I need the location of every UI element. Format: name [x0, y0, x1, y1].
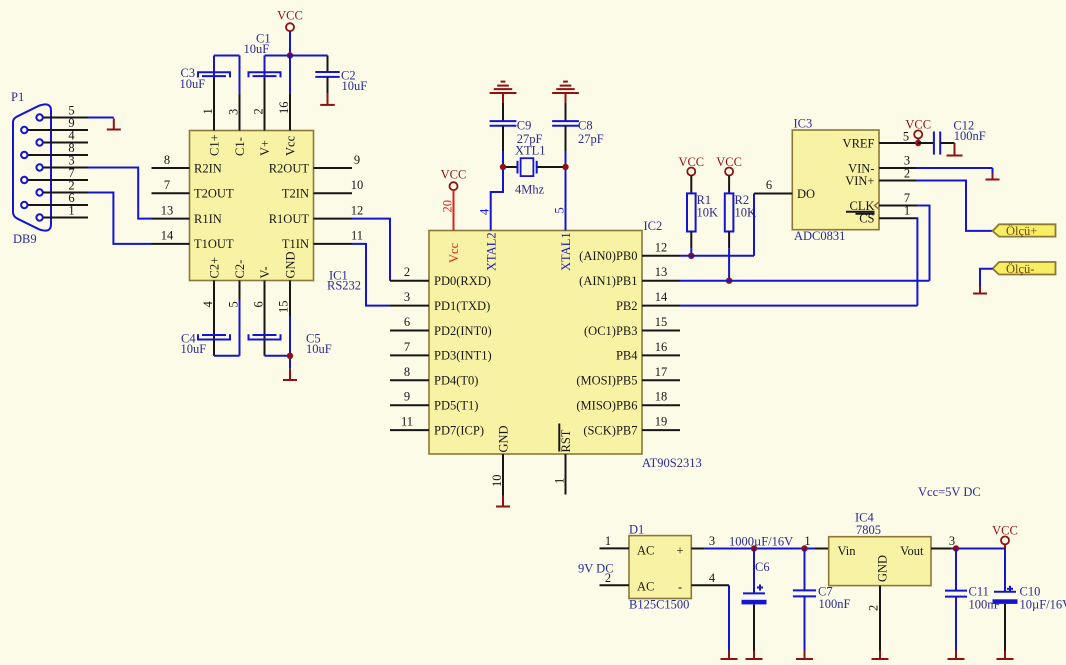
connector pin 1 — [36, 204, 88, 221]
svg-text:VIN+: VIN+ — [845, 174, 874, 188]
node C7 junction — [801, 545, 807, 551]
node C11 junction — [953, 545, 959, 551]
wire PB0 net — [680, 194, 754, 256]
svg-text:5: 5 — [903, 130, 909, 144]
pin 12 (AIN0)PB0 — [579, 240, 680, 263]
wire C8 to XTAL1 node — [565, 151, 567, 167]
power VCC symbol R1 — [678, 155, 704, 176]
earth ground above C9 — [490, 82, 517, 103]
connector pin 6 — [21, 191, 88, 208]
svg-text:PD5(T1): PD5(T1) — [434, 399, 478, 413]
pin 3 PD1(TXD) — [390, 290, 490, 313]
pin name XTAL2 — [484, 232, 498, 271]
svg-text:1: 1 — [605, 534, 611, 548]
svg-text:8: 8 — [164, 153, 170, 167]
svg-text:1: 1 — [201, 108, 215, 114]
svg-text:100nF: 100nF — [954, 129, 986, 143]
svg-text:6: 6 — [404, 315, 410, 329]
wire C7 bottom — [804, 596, 806, 650]
capacitor C4 — [198, 334, 230, 339]
svg-text:(MOSI)PB5: (MOSI)PB5 — [576, 374, 637, 388]
svg-text:1: 1 — [804, 534, 810, 548]
svg-text:4Mhz: 4Mhz — [515, 183, 545, 197]
svg-text:C11: C11 — [969, 585, 989, 599]
svg-text:13: 13 — [161, 203, 174, 217]
svg-text:13: 13 — [655, 265, 668, 279]
pin 3 IC4 Vout — [931, 534, 955, 549]
label 1000uF/16V — [729, 535, 793, 549]
svg-text:VCC: VCC — [441, 168, 467, 182]
capacitor C9 — [490, 103, 517, 151]
svg-text:IC2: IC2 — [644, 219, 663, 233]
label C7 value — [818, 585, 851, 612]
pin 2 VIN+ — [845, 167, 916, 188]
svg-text:19: 19 — [655, 415, 668, 429]
svg-text:D1: D1 — [629, 523, 644, 537]
pin 7 PD3(INT1) — [390, 340, 492, 363]
pin 17 (MOSI)PB5 — [576, 365, 680, 388]
pin 15 (OC1)PB3 — [584, 315, 680, 338]
node C5 GND junction — [287, 353, 293, 359]
wire C6 bottom — [753, 605, 755, 651]
svg-text:6: 6 — [766, 178, 772, 192]
wire CS net — [916, 218, 917, 305]
svg-text:11: 11 — [351, 229, 363, 243]
svg-text:RST: RST — [559, 429, 573, 452]
svg-text:VCC: VCC — [277, 9, 303, 23]
svg-text:C2+: C2+ — [208, 257, 222, 279]
connector pin 3 — [36, 154, 88, 171]
svg-text:3: 3 — [227, 109, 241, 115]
pin name XTAL1 — [559, 232, 573, 271]
pin name V+ — [258, 140, 272, 156]
svg-text:10K: 10K — [735, 206, 757, 220]
pin name GND IC2 — [497, 425, 511, 452]
label C12 value — [953, 119, 985, 144]
svg-text:DB9: DB9 — [13, 232, 37, 246]
ground under IC2 GND — [496, 496, 510, 507]
pin 11 PD7(ICP) — [390, 415, 484, 438]
ic IC1 RS232 body — [190, 131, 314, 281]
wire DB9 pin3 to R1IN — [88, 168, 152, 219]
wire C3 top to pin3 — [214, 56, 240, 94]
ground under C6 — [746, 651, 763, 660]
crystal XTL1 — [506, 158, 563, 176]
ground under C2 — [320, 93, 335, 105]
node VCC junction — [287, 52, 293, 58]
pin 1 D1 — [600, 534, 630, 548]
wire VIN- to ground — [916, 168, 993, 174]
ic IC4 7805 body — [829, 537, 931, 586]
label DB9 — [13, 232, 37, 246]
label C8 value — [578, 119, 604, 147]
svg-text:3: 3 — [904, 154, 910, 168]
svg-text:Vcc: Vcc — [447, 242, 461, 263]
svg-text:RS232: RS232 — [327, 279, 361, 293]
pin 3 VIN- — [848, 154, 916, 176]
power VCC symbol R2 — [716, 155, 742, 176]
svg-text:PD4(T0): PD4(T0) — [434, 374, 478, 388]
svg-text:2: 2 — [252, 108, 266, 114]
wire rail to IC4 — [804, 534, 829, 549]
svg-text:Ölçü-: Ölçü- — [1006, 262, 1034, 276]
label AT90S2313 — [642, 456, 702, 470]
pin 2 D1 — [600, 571, 630, 585]
label IC1 — [327, 269, 361, 293]
label C9 value — [517, 119, 543, 147]
node XTAL1 junction — [562, 164, 568, 170]
node VREF VCC junction — [915, 140, 921, 146]
wire C2 bottom — [327, 77, 329, 93]
label IC4 — [855, 511, 875, 525]
svg-text:15: 15 — [277, 301, 291, 314]
svg-text:10uF: 10uF — [342, 79, 368, 93]
label 9V DC — [578, 562, 614, 576]
node XTAL2 junction — [500, 164, 506, 170]
connector P1 DB9 outline — [13, 104, 51, 230]
ground at VIN- — [986, 174, 1000, 180]
svg-text:PD0(RXD): PD0(RXD) — [434, 274, 491, 288]
pin 7 CLK — [846, 191, 917, 213]
wire Olcu- to ground — [980, 269, 993, 287]
ground at C12 — [947, 143, 963, 156]
svg-text:10K: 10K — [697, 206, 719, 220]
svg-text:VREF: VREF — [843, 137, 875, 151]
capacitor C2 — [315, 72, 339, 77]
node R1 PB0 junction — [688, 253, 694, 259]
pin 16 stub Vcc — [277, 93, 291, 130]
svg-text:6: 6 — [252, 301, 266, 307]
svg-text:12: 12 — [655, 240, 668, 254]
power VCC symbol at pin20 — [441, 168, 467, 191]
ic IC2 AT90S2313 body — [429, 231, 642, 455]
svg-text:PD7(ICP): PD7(ICP) — [434, 423, 484, 437]
svg-text:2: 2 — [867, 605, 881, 611]
svg-text:DO: DO — [797, 187, 815, 201]
svg-text:20: 20 — [441, 200, 455, 213]
svg-text:P1: P1 — [11, 90, 24, 104]
svg-text:10: 10 — [490, 475, 504, 488]
svg-text:C2-: C2- — [233, 260, 247, 279]
svg-text:1: 1 — [904, 204, 910, 218]
svg-text:C1+: C1+ — [208, 134, 222, 156]
svg-text:1: 1 — [553, 478, 567, 484]
svg-text:(AIN1)PB1: (AIN1)PB1 — [579, 274, 637, 288]
svg-text:PB4: PB4 — [616, 349, 638, 363]
label Vcc=5V DC — [918, 485, 981, 499]
label IC3 — [794, 117, 813, 131]
svg-text:C1-: C1- — [233, 137, 247, 156]
wire DB9 pin5 to ground — [88, 117, 114, 119]
wire C7 top — [804, 549, 806, 591]
pin 19 (SCK)PB7 — [583, 415, 680, 438]
svg-text:18: 18 — [655, 390, 668, 404]
wire R1 to PB0 — [690, 248, 692, 256]
svg-text:10uF: 10uF — [180, 77, 206, 91]
label C10 value — [1020, 585, 1066, 612]
wire Vout rail — [952, 548, 1005, 550]
capacitor C11 — [945, 591, 967, 597]
power VCC symbol top — [277, 9, 303, 32]
label C6 — [755, 560, 770, 574]
pin 18 (MISO)PB6 — [576, 390, 680, 413]
pin 16 PB4 — [616, 340, 680, 363]
label C11 value — [969, 585, 1001, 612]
svg-text:9: 9 — [404, 390, 410, 404]
wire VCC to pin20 — [441, 190, 455, 230]
svg-text:VCC: VCC — [905, 118, 931, 132]
svg-text:R1OUT: R1OUT — [269, 212, 310, 226]
svg-text:T1OUT: T1OUT — [194, 237, 234, 251]
svg-text:C9: C9 — [517, 119, 532, 133]
svg-text:(OC1)PB3: (OC1)PB3 — [584, 324, 637, 338]
svg-text:5: 5 — [553, 207, 567, 213]
svg-text:1: 1 — [68, 204, 74, 218]
svg-text:17: 17 — [655, 365, 668, 379]
svg-text:10: 10 — [351, 178, 364, 192]
svg-text:4: 4 — [478, 208, 492, 215]
wire R2 to PB1 — [728, 248, 730, 280]
pin name C1+ — [208, 134, 222, 156]
svg-text:C6: C6 — [755, 560, 770, 574]
ic IC3 ADC0831 body — [792, 130, 879, 230]
pin 10 GND stub — [490, 454, 504, 496]
label R2 value — [735, 193, 757, 220]
capacitor C5 — [249, 334, 281, 339]
svg-text:R2IN: R2IN — [194, 161, 222, 175]
ground under IC4 — [872, 651, 889, 660]
label 4Mhz — [515, 183, 545, 197]
svg-text:10uF: 10uF — [306, 342, 332, 356]
pin 15 stub GND — [277, 251, 298, 316]
connector pin 5 — [36, 104, 88, 121]
svg-text:2: 2 — [904, 167, 910, 181]
pin 12 R1OUT — [269, 203, 364, 226]
svg-text:5: 5 — [227, 301, 241, 307]
svg-text:PD2(INT0): PD2(INT0) — [434, 324, 492, 338]
label Olcu+ — [1006, 224, 1037, 238]
svg-text:T2OUT: T2OUT — [194, 187, 234, 201]
svg-text:GND: GND — [876, 555, 890, 582]
svg-text:ADC0831: ADC0831 — [794, 229, 845, 243]
label C3 value — [180, 66, 206, 91]
capacitor C8 — [552, 103, 579, 151]
svg-text:+: + — [677, 544, 684, 558]
svg-text:T1IN: T1IN — [282, 237, 309, 251]
pin names D1 — [637, 544, 684, 595]
svg-text:C10: C10 — [1020, 585, 1041, 599]
svg-text:14: 14 — [655, 290, 668, 304]
wire C4 bottom to pin5 — [214, 300, 240, 356]
svg-text:8: 8 — [404, 365, 410, 379]
wire pin4 down — [728, 585, 730, 650]
svg-text:PD1(TXD): PD1(TXD) — [434, 299, 490, 313]
wire T1IN to PD1 — [352, 244, 390, 306]
label C5 value — [306, 332, 332, 357]
svg-text:(SCK)PB7: (SCK)PB7 — [583, 423, 637, 437]
pin 4 D1 — [691, 571, 729, 585]
connector pin 8 — [21, 141, 88, 158]
svg-text:XTAL1: XTAL1 — [559, 232, 573, 271]
earth ground above C8 — [552, 82, 579, 103]
capacitor C6 — [742, 585, 767, 605]
svg-text:15: 15 — [655, 315, 668, 329]
label R1 value — [697, 193, 719, 220]
port Olcu- flag — [993, 262, 1056, 275]
ground under C5 — [283, 368, 297, 380]
svg-text:PB2: PB2 — [616, 299, 638, 313]
pin 1 stub C1+ — [201, 78, 215, 131]
pin 14 PB2 — [616, 290, 680, 313]
connector pin 9 — [21, 116, 88, 133]
pin 1 RST stub — [553, 454, 567, 495]
wire DB9 pin2 to T1OUT — [88, 193, 152, 244]
capacitor C7 — [793, 590, 816, 596]
power VCC symbol output — [992, 524, 1018, 549]
pin 3 D1 — [691, 534, 715, 549]
svg-text:Vout: Vout — [900, 544, 924, 558]
svg-text:9V DC: 9V DC — [578, 562, 614, 576]
pin 14 T1OUT — [152, 229, 234, 252]
ground under C10 — [997, 651, 1014, 660]
ground under D1 pin4 — [721, 651, 738, 660]
pin 1 CS — [856, 204, 917, 226]
label P1 — [11, 90, 24, 104]
pin 5 stub C2- — [227, 260, 248, 308]
connector pin 2 — [36, 179, 88, 196]
pin 2 IC4 GND — [867, 586, 881, 651]
node C6 junction — [751, 545, 757, 551]
pin 5 VREF — [843, 130, 919, 151]
pin names IC4 — [838, 544, 925, 582]
capacitor C1 — [249, 72, 281, 77]
power VCC symbol at VREF — [905, 118, 931, 144]
pin 6 stub V- — [252, 266, 273, 355]
svg-text:R2OUT: R2OUT — [269, 161, 310, 175]
svg-text:XTAL2: XTAL2 — [484, 232, 498, 271]
pin name C1- — [233, 137, 247, 156]
svg-text:11: 11 — [401, 415, 413, 429]
pin 6 DO — [754, 178, 815, 201]
label C2 value — [341, 69, 367, 94]
port Olcu+ flag — [993, 224, 1056, 236]
pin 2 PD0(RXD) — [390, 265, 491, 288]
svg-text:10µF/16V: 10µF/16V — [1020, 598, 1066, 612]
svg-text:2: 2 — [404, 265, 410, 279]
pin 10 T2IN — [282, 178, 363, 201]
pin 6 PD2(INT0) — [390, 315, 492, 338]
svg-text:10uF: 10uF — [181, 342, 207, 356]
wire R1OUT to PD0 — [352, 219, 390, 281]
svg-text:1000µF/16V: 1000µF/16V — [729, 535, 793, 549]
label Olcu- — [1006, 262, 1034, 276]
svg-text:7: 7 — [164, 178, 170, 192]
pin 4 stub C2+ — [201, 257, 222, 356]
wire C10 top — [1004, 549, 1006, 592]
svg-text:T2IN: T2IN — [282, 187, 309, 201]
ground under C7 — [796, 651, 813, 660]
bridge D1 body — [629, 536, 691, 599]
svg-text:(MISO)PB6: (MISO)PB6 — [576, 399, 637, 413]
svg-text:7805: 7805 — [856, 523, 881, 537]
capacitor C10 — [993, 586, 1018, 604]
pin name RST — [559, 424, 573, 453]
svg-text:AT90S2313: AT90S2313 — [642, 456, 702, 470]
svg-text:Ölçü+: Ölçü+ — [1006, 224, 1037, 238]
svg-text:Vin: Vin — [838, 544, 857, 558]
svg-text:3: 3 — [709, 534, 715, 548]
svg-text:R1IN: R1IN — [194, 212, 222, 226]
svg-text:27pF: 27pF — [578, 132, 604, 146]
svg-text:V+: V+ — [258, 140, 272, 156]
resistor R1 — [687, 176, 696, 249]
pin 11 T1IN — [282, 229, 363, 252]
label 7805 — [856, 523, 881, 537]
label C4 value — [181, 332, 207, 357]
label ADC0831 — [794, 229, 845, 243]
wire C6 top — [753, 549, 755, 594]
wire CLK net — [917, 206, 930, 281]
svg-text:16: 16 — [655, 340, 668, 354]
ground at DB9 pin5 — [107, 119, 121, 130]
pin 5 XTAL1 wire — [553, 167, 567, 231]
connector pin 7 — [21, 166, 88, 183]
svg-text:VCC: VCC — [992, 524, 1018, 538]
wire VCC to node — [289, 31, 291, 55]
capacitor C12 — [918, 132, 954, 155]
wire C5 bottom to pin15 — [265, 316, 291, 368]
pin name Vcc — [284, 135, 298, 156]
svg-text:3: 3 — [404, 290, 410, 304]
wire VIN+ to Olcu+ — [916, 181, 993, 231]
svg-text:C8: C8 — [578, 119, 593, 133]
wire DC rail — [705, 548, 815, 550]
wire C9 to XTAL2 node — [502, 151, 504, 167]
svg-text:IC3: IC3 — [794, 117, 813, 131]
svg-text:Vcc: Vcc — [284, 135, 298, 156]
svg-text:100nF: 100nF — [819, 597, 851, 611]
pin 4 XTAL2 wire — [478, 167, 503, 231]
svg-text:16: 16 — [277, 102, 291, 115]
wire PB2 to CS — [680, 305, 917, 307]
svg-text:14: 14 — [161, 229, 174, 243]
svg-text:PD3(INT1): PD3(INT1) — [434, 349, 492, 363]
pin name Vcc IC2 — [447, 242, 461, 263]
pin 9 PD5(T1) — [390, 390, 478, 413]
label B125C1500 — [629, 598, 689, 612]
svg-text:XTL1: XTL1 — [515, 144, 546, 158]
svg-text:4: 4 — [201, 301, 215, 308]
svg-text:GND: GND — [497, 425, 511, 452]
svg-text:9: 9 — [354, 153, 360, 167]
wire C11 bottom — [955, 597, 957, 651]
capacitor C3 — [198, 72, 230, 77]
svg-text:10uF: 10uF — [244, 42, 270, 56]
pin 13 (AIN1)PB1 — [579, 265, 680, 288]
svg-text:V-: V- — [258, 266, 272, 278]
wire PB1 to CLK — [680, 280, 930, 282]
pin 8 R2IN — [152, 153, 222, 176]
svg-text:7: 7 — [404, 340, 410, 354]
wire VCC node to C1 and C2 — [265, 56, 328, 94]
wire C10 bottom — [1004, 604, 1006, 651]
pin 7 T2OUT — [152, 178, 234, 201]
wire C11 top — [955, 549, 957, 591]
svg-text:AC: AC — [637, 544, 654, 558]
pin 3 stub C1- — [227, 93, 241, 130]
label C1 value — [244, 32, 271, 57]
svg-text:(AIN0)PB0: (AIN0)PB0 — [579, 249, 637, 263]
